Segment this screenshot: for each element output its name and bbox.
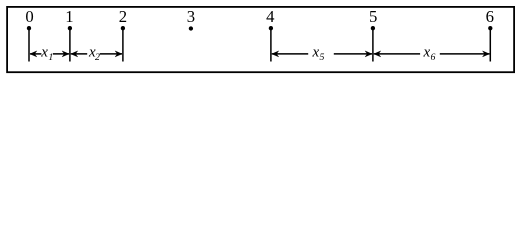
svg-text:0: 0 bbox=[25, 7, 33, 26]
svg-text:2: 2 bbox=[95, 52, 100, 63]
svg-text:3: 3 bbox=[187, 7, 195, 26]
svg-text:6: 6 bbox=[431, 52, 436, 63]
svg-text:1: 1 bbox=[48, 52, 53, 63]
svg-text:1: 1 bbox=[65, 7, 73, 26]
svg-text:x: x bbox=[40, 45, 48, 61]
svg-text:2: 2 bbox=[119, 7, 127, 26]
svg-text:6: 6 bbox=[486, 7, 494, 26]
svg-text:x: x bbox=[312, 45, 320, 61]
svg-text:5: 5 bbox=[369, 7, 377, 26]
svg-text:5: 5 bbox=[320, 52, 325, 63]
svg-text:x: x bbox=[423, 45, 431, 61]
svg-text:4: 4 bbox=[266, 7, 275, 26]
